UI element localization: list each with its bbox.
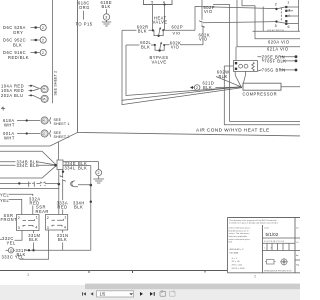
svg-text:3: 3 (105, 16, 107, 20)
svg-text:202A BLU: 202A BLU (1, 93, 23, 98)
svg-text:YEL: YEL (0, 198, 9, 203)
svg-text:.X ± .1: .X ± .1 (231, 258, 238, 260)
wire 621A blower feed (down right) (213, 5, 300, 122)
wire 705G BRN (258, 68, 298, 73)
svg-text:VIO: VIO (204, 9, 213, 14)
svg-text:REAR: REAR (36, 209, 49, 214)
wire 602K VIO (199, 27, 211, 45)
fan switch pin 3 (285, 8, 293, 12)
wire 334B BLK (0, 159, 55, 164)
svg-text:4: 4 (35, 226, 37, 230)
wire 202A BLU (1, 93, 41, 99)
wire thermostat feed (down right) (224, 66, 300, 125)
switch mechanical link (280, 8, 282, 21)
svg-text:DISTRIBUTION: DISTRIBUTION (264, 241, 285, 243)
svg-text:2: 2 (42, 26, 44, 30)
fan switch pin 6 (285, 20, 298, 29)
compressor M1 (243, 83, 282, 96)
wire pin4 to heat valve (163, 5, 164, 30)
node 15 (sheet connector) (41, 130, 48, 137)
compressor clutch relay K1 (233, 61, 257, 72)
wire 332C YEL (0, 231, 22, 246)
heat valve (153, 15, 168, 37)
toolbar rotate right button (170, 290, 176, 296)
wire relay coil feed (235, 47, 237, 61)
node 45 (sheet connector) (41, 117, 48, 124)
wire relay contact stubs (235, 71, 245, 86)
svg-text:BLK: BLK (141, 45, 150, 50)
node 75 (sheet connector) (41, 86, 48, 93)
toolbar next page button (140, 292, 143, 296)
wire 105A RED (1, 88, 39, 93)
svg-text:1: 1 (64, 216, 66, 220)
ground G 331P (6, 248, 14, 253)
wire 334E BLK (63, 161, 99, 166)
toolbar rotate left button (160, 290, 166, 296)
fan switch pin 2 (275, 3, 286, 11)
label SSR REAR (36, 205, 49, 214)
svg-text:602P: 602P (172, 25, 184, 30)
connector SSR front (17, 215, 40, 231)
wire 618E BLK (101, 0, 113, 14)
svg-text:5: 5 (275, 24, 277, 28)
node 2 (sheet connector) (40, 49, 46, 55)
wire compressor case lead (122, 88, 242, 105)
svg-text:4: 4 (64, 226, 66, 230)
ground symbol 618E (102, 20, 111, 26)
wire 602W BLK (216, 69, 242, 87)
wire 331M BLK (28, 231, 40, 251)
wire 001A WHT (3, 131, 40, 140)
wire compressor output (281, 86, 300, 88)
svg-text:5: 5 (151, 1, 153, 5)
wire 602F VIO (202, 0, 215, 20)
svg-text:THIRD ANGLE PROJECTION: THIRD ANGLE PROJECTION (264, 270, 292, 273)
svg-text:2: 2 (275, 3, 277, 7)
svg-text:2: 2 (42, 39, 44, 43)
svg-text:.XXXX ± .0005: .XXXX ± .0005 (231, 268, 245, 270)
svg-text:SHEET 1: SHEET 1 (54, 122, 70, 126)
wire 618A WHT (3, 118, 40, 127)
inline connector 602F/602K (200, 20, 204, 28)
svg-text:VALVE: VALVE (153, 20, 168, 25)
fan switch pin 4 (285, 14, 298, 18)
svg-text:1: 1 (36, 216, 38, 220)
svg-text:334C BLK: 334C BLK (17, 163, 40, 168)
svg-text:1/5: 1/5 (100, 292, 106, 297)
label 334H BLK (73, 201, 85, 210)
wire 621A VIO (237, 0, 300, 52)
wire 602P to fan switch pin 2 (195, 7, 276, 31)
wire 331P BLK rail (14, 248, 91, 257)
node 2 (sheet connector) (40, 37, 46, 43)
wire D6C 916C RED/BLK (3, 50, 40, 60)
svg-text:FRONT: FRONT (1, 217, 18, 222)
connector block pins 5 4 (144, 0, 173, 5)
svg-text:DECIMAL: DECIMAL (230, 251, 240, 254)
wire 333C YEL (2, 230, 49, 260)
node 3 (ground connector) (103, 14, 109, 20)
svg-text:G: G (10, 249, 13, 253)
svg-text:1: 1 (287, 0, 289, 4)
inline connector cab (29, 182, 35, 187)
wire relay coil left lead (224, 65, 233, 67)
off-page arrow symbol (1, 107, 5, 111)
svg-text:fied.: fied. (229, 242, 233, 244)
svg-text:BLK: BLK (102, 4, 111, 9)
connector SSR rear (46, 215, 68, 231)
svg-text:WHT: WHT (4, 122, 15, 127)
wire 332B YEL (0, 198, 22, 215)
wire bracket SEE SHEET 2 (53, 0, 58, 103)
svg-text:3: 3 (47, 226, 49, 230)
svg-text:6: 6 (288, 25, 290, 29)
wire 602R to compressor (122, 30, 241, 100)
label SEE SHEET 1 (50, 117, 70, 126)
svg-text:SEE SHEET 2: SEE SHEET 2 (54, 71, 58, 96)
label SEE SHEET 2 (50, 130, 70, 139)
svg-text:705F BLK: 705F BLK (264, 59, 286, 64)
svg-text:334L: 334L (65, 165, 76, 170)
svg-text:This drawing is the property o: This drawing is the property of Link-Bel… (229, 219, 277, 222)
wire 602L BLK (126, 40, 156, 50)
wire feed to splice (0, 132, 78, 160)
splice block (54, 160, 63, 215)
svg-text:listed are applicable: listed are applicable (229, 235, 248, 238)
toolbar page input 1/5 (97, 291, 134, 297)
title block right column (295, 228, 300, 267)
svg-text:5/1/02: 5/1/02 (266, 232, 279, 237)
enclosure box A/C harness (78, 0, 301, 136)
svg-text:620A VIO: 620A VIO (268, 39, 290, 44)
wire 602P VIO (163, 25, 195, 36)
inline connector 333A (60, 175, 65, 182)
title block fine print (229, 219, 279, 270)
wire 705E BRN (257, 55, 297, 60)
svg-text:.XX ± .06: .XX ± .06 (231, 261, 240, 263)
svg-text:2: 2 (18, 216, 20, 220)
svg-text:.XXX ± .005: .XXX ± .005 (231, 265, 243, 267)
svg-text:BLK: BLK (29, 237, 38, 242)
svg-text:BLK: BLK (58, 237, 67, 242)
svg-text:621A VIO: 621A VIO (267, 47, 289, 52)
fan switch pin 1 (285, 0, 298, 8)
bypass valve (150, 42, 169, 65)
svg-text:2: 2 (42, 51, 44, 55)
wire 104A RED (1, 83, 41, 88)
svg-text:ANGULAR ± 1°: ANGULAR ± 1° (230, 248, 244, 251)
svg-text:BLK: BLK (78, 165, 87, 170)
wire 705F BLK (263, 57, 298, 64)
wire D6C 952C BLK (3, 38, 40, 48)
svg-text:2: 2 (47, 216, 49, 220)
wire 334C BLK (0, 163, 55, 168)
node 2 (ground connector) (96, 162, 102, 176)
fan switch pin 5 (275, 20, 286, 27)
wire 334L BLK (63, 165, 91, 170)
label SSR FRONT (1, 213, 18, 222)
wire bus right edge (298, 0, 300, 31)
svg-text:WHT: WHT (4, 135, 15, 140)
svg-text:SHEET 2: SHEET 2 (54, 135, 70, 139)
wire cab feed lower (0, 188, 59, 190)
svg-text:unless otherwise speci-: unless otherwise speci- (229, 227, 251, 230)
node 2 (sheet connector) (40, 24, 46, 30)
svg-text:YEL: YEL (7, 240, 16, 245)
svg-text:VIO: VIO (171, 44, 180, 49)
wire splice to 333A (62, 170, 64, 177)
svg-text:COMPRESSOR: COMPRESSOR (243, 91, 278, 96)
toolbar last page button (150, 292, 155, 296)
title block date cell (263, 227, 296, 251)
wire bypass valve to 602K (164, 44, 203, 46)
fan switch S1 body (253, 7, 301, 33)
svg-text:2: 2 (196, 86, 198, 90)
svg-text:3: 3 (18, 226, 20, 230)
svg-text:RED/BLK: RED/BLK (8, 55, 29, 60)
sheet border bottom (0, 271, 257, 279)
svg-text:ORG: ORG (79, 5, 90, 10)
ground 621D BLK (190, 81, 242, 91)
svg-text:TO P15: TO P15 (76, 22, 93, 27)
wire 602L to compressor (126, 45, 242, 96)
wire 332A YEL (0, 193, 41, 215)
wire 331N BLK (57, 230, 69, 250)
svg-text:in whole or in part, or design: in whole or in part, or design and detai… (229, 222, 279, 225)
svg-text:inches. The tolerances: inches. The tolerances (229, 232, 250, 235)
node 15 (sheet connector) (41, 95, 48, 102)
viewer scrollbar (85, 284, 300, 290)
viewer toolbar background (0, 285, 300, 300)
svg-text:VALVE: VALVE (152, 59, 167, 64)
svg-text:unless otherwise speci-: unless otherwise speci- (229, 238, 251, 241)
wire 333A RED (57, 181, 69, 215)
wire 620A VIO (242, 0, 300, 44)
wire D6C 525A GRY (3, 25, 40, 35)
svg-text:HTR A/C SWITCH: HTR A/C SWITCH (267, 29, 284, 32)
svg-text:2: 2 (98, 171, 100, 175)
svg-text:AIR COND W/HYD HEAT ELE: AIR COND W/HYD HEAT ELE (196, 127, 270, 132)
harness bundle outline (0, 151, 56, 178)
wire 334H down (71, 166, 93, 251)
svg-text:BLK: BLK (138, 29, 147, 34)
svg-text:3: 3 (288, 8, 290, 12)
wire cab feed upper (0, 182, 59, 187)
title block frame (228, 218, 301, 273)
svg-text:fied dimensions are in: fied dimensions are in (229, 229, 250, 232)
svg-text:BLK: BLK (74, 205, 83, 210)
svg-text:RED: RED (57, 205, 67, 210)
wire 602R BLK (122, 24, 154, 33)
svg-text:GRY: GRY (13, 30, 23, 35)
toolbar first page button (82, 292, 86, 295)
svg-text:705G BRN: 705G BRN (262, 68, 286, 73)
third angle projection symbol (264, 258, 292, 273)
wire fan switch pin 5 lead (203, 22, 276, 23)
toolbar prev page button (91, 292, 94, 295)
svg-text:VIO: VIO (173, 31, 181, 36)
wire 618C ORG TO P15 (76, 1, 93, 27)
svg-text:BLK: BLK (13, 43, 22, 48)
wire pin5 to heat valve (152, 5, 154, 31)
ground symbol 334E (93, 176, 104, 183)
